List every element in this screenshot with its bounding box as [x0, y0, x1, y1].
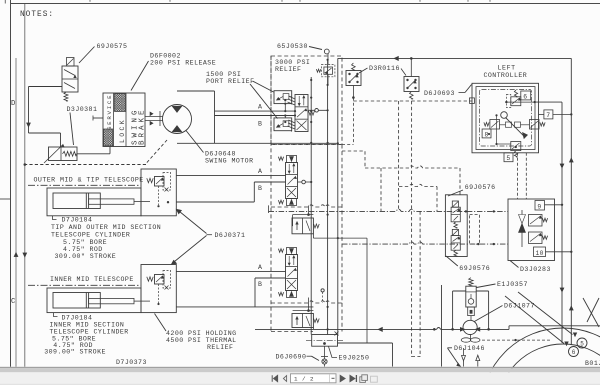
holding valve under spool2 — [308, 298, 310, 311]
svg-text:6: 6 — [572, 349, 576, 356]
svg-text:RELIEF: RELIEF — [275, 66, 301, 73]
controller pilot dashed down — [516, 153, 518, 199]
69J0576 lower valve — [452, 229, 458, 235]
relief valve E1J0357 body — [466, 286, 476, 307]
hatched piston block bottom-left — [104, 129, 113, 146]
next page button — [340, 375, 345, 382]
port box 9 — [535, 201, 545, 211]
svg-text:CONTROLLER: CONTROLLER — [484, 72, 528, 79]
svg-text:1 / 2: 1 / 2 — [294, 375, 314, 382]
port box 8 — [482, 129, 491, 138]
cylinder2 barrel — [53, 293, 100, 309]
cyl2 spec text block — [54, 313, 58, 317]
svg-text:INNER MID TELESCOPE: INNER MID TELESCOPE — [50, 276, 134, 283]
svg-text:PORT RELIEF: PORT RELIEF — [206, 78, 254, 85]
leader 4200psi — [155, 314, 167, 332]
solenoid box of 69J0575 — [67, 58, 75, 67]
cylinder2 enclosure — [47, 288, 141, 313]
prev page button — [283, 376, 286, 382]
work line B1 — [254, 181, 285, 183]
adjustment arrow through relief — [44, 145, 63, 164]
spring of 69J0575 — [64, 92, 68, 101]
svg-text:D7J0184: D7J0184 — [62, 315, 93, 322]
svg-text:SWING MOTOR: SWING MOTOR — [205, 158, 253, 165]
svg-text:D6J0371: D6J0371 — [215, 232, 246, 239]
svg-text:D6J0648: D6J0648 — [205, 151, 236, 158]
toolbar background — [0, 372, 600, 385]
leader to swing motor — [186, 131, 204, 153]
controller outer box — [472, 83, 539, 153]
solenoid valve 69J0575 — [62, 66, 78, 92]
flow arrow on top line — [394, 56, 398, 60]
port box 10 — [534, 247, 546, 257]
svg-text:A: A — [258, 168, 262, 175]
cylinder1 enclosure — [47, 188, 141, 216]
flow arrow on return — [378, 327, 382, 331]
cut-off fan lines top right — [583, 298, 599, 327]
tank stub down — [324, 346, 326, 359]
spool proportional hatches left top — [289, 96, 296, 99]
svg-text:4.75" ROD: 4.75" ROD — [63, 246, 103, 253]
pilot stub into brake (D3J0381 orifice) — [93, 117, 103, 119]
gear pump circle D6J1077 — [463, 320, 477, 334]
motor triangle top — [172, 106, 182, 112]
case drain dashed horizontal — [25, 164, 146, 166]
leader to 69J0575 — [79, 47, 95, 64]
reducing valve right — [530, 120, 540, 130]
suction arrows D6J1046 — [463, 348, 465, 355]
wire 10 to supply 571 — [546, 251, 572, 253]
svg-text:B01J: B01J — [585, 360, 600, 367]
zone boundary tick — [0, 198, 11, 200]
E1J0357 relief spring — [469, 278, 473, 287]
vertical drain line — [441, 285, 443, 367]
svg-text:9: 9 — [537, 203, 541, 210]
return line to tank right — [338, 342, 393, 344]
toolbar shadow strip — [0, 367, 600, 368]
shuttle1 pilot dash down to bank — [352, 98, 354, 145]
svg-text:5: 5 — [580, 341, 584, 348]
svg-text:69J0575: 69J0575 — [97, 43, 128, 50]
svg-text:D3R0116: D3R0116 — [369, 65, 400, 72]
port box 5 — [504, 153, 513, 162]
page dropdown — [329, 374, 331, 382]
flow arrow down on 562 — [560, 164, 564, 168]
svg-text:10: 10 — [536, 250, 544, 257]
holding valve box1 — [141, 169, 176, 216]
last page button — [350, 375, 355, 382]
return line B2 low — [176, 306, 313, 308]
svg-text:D3J0283: D3J0283 — [520, 266, 551, 273]
leaders to port relief valves — [253, 81, 274, 92]
spool proportional hatches left bottom — [289, 120, 296, 123]
controller dash-dot box — [480, 90, 532, 147]
leader D3J0381 — [70, 113, 74, 146]
svg-text:D6J0690: D6J0690 — [276, 354, 307, 361]
svg-text:NOTES:: NOTES: — [20, 11, 54, 19]
telescope spool 1 — [287, 156, 297, 163]
left bus wire down — [28, 87, 30, 134]
brake release relief valve — [49, 147, 78, 161]
valve bank dashed frame — [270, 56, 272, 332]
cylinder1 barrel — [53, 193, 100, 209]
pilot dash bank to right 1 — [342, 151, 365, 168]
fan motor bowtie — [519, 215, 526, 224]
main return line bottom — [255, 328, 437, 330]
first page button — [272, 375, 277, 382]
new window icon — [360, 377, 366, 383]
svg-text:8: 8 — [485, 131, 489, 138]
orifice link line swing — [308, 109, 328, 111]
controller internal wires — [506, 101, 534, 103]
wire port7 to supply — [553, 113, 571, 115]
label D6J0371 — [207, 234, 213, 236]
svg-text:309.00" STROKE: 309.00" STROKE — [55, 253, 117, 260]
svg-text:4200 PSI HOLDING: 4200 PSI HOLDING — [166, 330, 237, 337]
svg-text:4500 PSI THERMAL: 4500 PSI THERMAL — [166, 337, 237, 344]
motor triangle bottom — [172, 126, 182, 132]
sheet outer border line — [10, 0, 12, 367]
pilot dashed loop right of 69J0576 — [470, 215, 480, 245]
supply line across top — [338, 57, 572, 59]
cylinder1 rod — [89, 199, 134, 204]
right supply down — [570, 58, 572, 345]
D3J0283 box — [508, 199, 555, 261]
svg-text:3000 PSI: 3000 PSI — [275, 59, 310, 66]
sheet corner stub — [4, 0, 6, 4]
junction at shuttle 2 — [410, 57, 413, 60]
orifice above valve2 — [321, 289, 324, 292]
svg-text:TIP AND OUTER MID SECTION: TIP AND OUTER MID SECTION — [51, 224, 161, 231]
circled port 6 — [569, 347, 579, 357]
svg-text:E1J0357: E1J0357 — [497, 281, 528, 288]
svg-text:A: A — [258, 264, 262, 271]
pilot vertical dashed lines — [398, 101, 400, 211]
port relief valve A — [274, 91, 292, 104]
pilot dash-dot line upper — [268, 205, 270, 213]
left tank bus line — [24, 4, 26, 367]
center small links — [506, 122, 512, 127]
work line A1 — [176, 174, 285, 176]
pressure bus P2 — [327, 60, 329, 335]
swing spool valve — [295, 95, 308, 132]
leaders D6J0371 — [180, 212, 207, 234]
spool1 springs — [278, 157, 283, 161]
disabled icon — [371, 376, 378, 382]
engine flywheel big circle — [481, 328, 600, 385]
cylinder2 rod — [89, 298, 134, 303]
port box 6 — [521, 91, 531, 100]
junction on border bus — [24, 163, 27, 166]
swing section dashed enclosure — [271, 56, 342, 145]
swing motor D6J0648 circle — [163, 105, 192, 134]
cylinder2 piston — [85, 293, 87, 309]
spool2 springs — [278, 249, 283, 253]
return loop from bank — [338, 237, 367, 239]
work line A swing — [215, 110, 296, 112]
svg-text:INNER MID SECTION: INNER MID SECTION — [49, 322, 124, 329]
reducing valve left — [490, 120, 500, 130]
valve upper in D3J0283 — [529, 215, 543, 227]
return junction dots — [451, 328, 454, 331]
stub port relief A to line A — [284, 104, 286, 112]
left return bus line — [15, 58, 17, 367]
gauge port circle 65J0530 — [324, 49, 329, 54]
svg-text:200 PSI RELEASE: 200 PSI RELEASE — [150, 60, 216, 67]
svg-text:LEFT: LEFT — [498, 65, 516, 72]
svg-text:TELESCOPE CYLINDER: TELESCOPE CYLINDER — [51, 232, 130, 239]
work line B2 — [255, 277, 286, 279]
fan symbol — [461, 338, 471, 342]
tank line below motor block — [215, 142, 338, 144]
arrows into ports — [505, 296, 564, 344]
svg-text:5.75" BORE: 5.75" BORE — [63, 239, 107, 246]
pilot dash elbow to upper pilot — [399, 184, 437, 186]
flow arrows right supply — [569, 158, 573, 162]
shuttle valve D3R0116 left — [346, 71, 361, 86]
holding valve box2 — [141, 265, 176, 313]
work line B swing — [215, 115, 296, 117]
reducing valve top — [511, 97, 521, 106]
svg-text:69J0576: 69J0576 — [465, 184, 496, 191]
flow arrow on left bus — [27, 123, 31, 127]
svg-text:69J0576: 69J0576 — [459, 265, 490, 272]
svg-text:D6J1077: D6J1077 — [504, 303, 535, 310]
shuttle1 stub — [352, 86, 354, 98]
relief valve lower element — [468, 307, 475, 316]
svg-text:B: B — [258, 281, 262, 288]
bus junction dots — [310, 79, 312, 81]
pilot dash-dot line lower — [342, 242, 508, 244]
pressure bus P1 — [310, 77, 312, 335]
wire relief to brake box — [77, 153, 110, 155]
joystick pivot circle — [501, 112, 508, 119]
counterbalance valve2 — [147, 277, 153, 281]
svg-text:1500 PSI: 1500 PSI — [206, 71, 241, 78]
shuttle2 stub to top line — [410, 58, 412, 76]
port relief valve B — [274, 118, 292, 131]
svg-text:B: B — [258, 185, 262, 192]
flow arrows on left buses — [14, 253, 18, 257]
centerline dash-dot cyl2 — [28, 284, 141, 286]
cylinder1 piston — [85, 193, 87, 209]
svg-text:B: B — [258, 121, 262, 128]
svg-text:309.00" STROKE: 309.00" STROKE — [44, 349, 106, 356]
holding valve under spool1 — [308, 206, 310, 215]
check valve block E9J0250 area — [312, 335, 338, 347]
section separator dashed lines — [271, 144, 342, 146]
counterbalance valve1 — [147, 178, 153, 182]
svg-text:OUTER MID & TIP TELESCOPE: OUTER MID & TIP TELESCOPE — [34, 177, 144, 184]
reducing valve bottom — [511, 142, 521, 151]
svg-text:D6F0002: D6F0002 — [150, 53, 181, 60]
valve lower in D3J0283 — [529, 232, 543, 244]
wire left bus to brake relief — [29, 132, 61, 134]
svg-text:LOCK: LOCK — [119, 118, 126, 143]
svg-text:A: A — [258, 104, 262, 111]
swing brake box — [103, 93, 145, 147]
holding valve1 outlet — [312, 234, 314, 238]
hatched piston block top — [115, 94, 126, 112]
joystick lever — [506, 118, 525, 137]
circled port 5 — [577, 338, 587, 348]
controller inner box — [476, 87, 535, 150]
page number box — [291, 374, 337, 383]
svg-text:65J0530: 65J0530 — [277, 43, 308, 50]
svg-text:D6J0693: D6J0693 — [424, 90, 455, 97]
pilot verticals foot link — [412, 356, 421, 358]
cyl1 spec text block — [53, 216, 57, 220]
spool spring right — [309, 111, 315, 115]
orifice on spool1 right — [298, 181, 312, 183]
controller left pilot port — [470, 98, 475, 104]
port box 7 — [544, 110, 553, 119]
svg-text:BRAKE: BRAKE — [139, 107, 147, 145]
svg-text:TELESCOPE CYLINDER: TELESCOPE CYLINDER — [49, 329, 128, 336]
tank symbol circle E9J0250 — [322, 359, 327, 364]
svg-text:E9J0250: E9J0250 — [339, 355, 370, 362]
svg-text:5: 5 — [506, 155, 510, 162]
pilot dashed horizontal to controller — [353, 100, 472, 102]
stub port relief B to line B — [284, 116, 286, 118]
svg-text:D6J1046: D6J1046 — [454, 345, 485, 352]
svg-text:D: D — [11, 100, 16, 108]
svg-text:D3J0381: D3J0381 — [67, 106, 98, 113]
pump loop lines — [453, 290, 489, 292]
wire 9 to supply 562 — [545, 204, 563, 206]
telescope spool 2 — [287, 248, 297, 255]
drive shaft to swing motor — [145, 116, 163, 118]
shuttle valve D3R0116 right — [404, 77, 419, 92]
case drain dashed diagonal from motor — [146, 140, 167, 164]
fan dashed link — [482, 339, 552, 341]
svg-text:C: C — [11, 298, 16, 306]
centerline dash-dot cyl1 — [28, 184, 141, 186]
svg-text:D7J0373: D7J0373 — [116, 359, 147, 366]
motor port block — [177, 90, 215, 92]
holding valve2 outlet — [312, 328, 314, 330]
svg-text:6: 6 — [523, 93, 527, 100]
svg-text:RELIEF: RELIEF — [207, 344, 233, 351]
svg-text:D7J0184: D7J0184 — [62, 217, 93, 224]
tank bus — [337, 58, 339, 334]
wire from 69J0575 to left bus — [29, 86, 63, 88]
leader D6F0002 — [131, 61, 149, 91]
wire port6 to right bus — [535, 101, 562, 103]
69J0576 upper valve — [452, 201, 458, 207]
x mark — [335, 332, 339, 336]
leader 65J0530 to gauge port — [309, 47, 322, 50]
drawing inner border top — [11, 3, 600, 5]
work line A2 — [176, 270, 285, 272]
svg-text:SERVICE: SERVICE — [106, 94, 113, 130]
cut-off text remnants along top edge — [89, 0, 91, 2]
main relief valve 3000psi — [324, 67, 333, 74]
svg-text:7: 7 — [546, 112, 550, 119]
69J0576 valve box — [445, 195, 467, 257]
